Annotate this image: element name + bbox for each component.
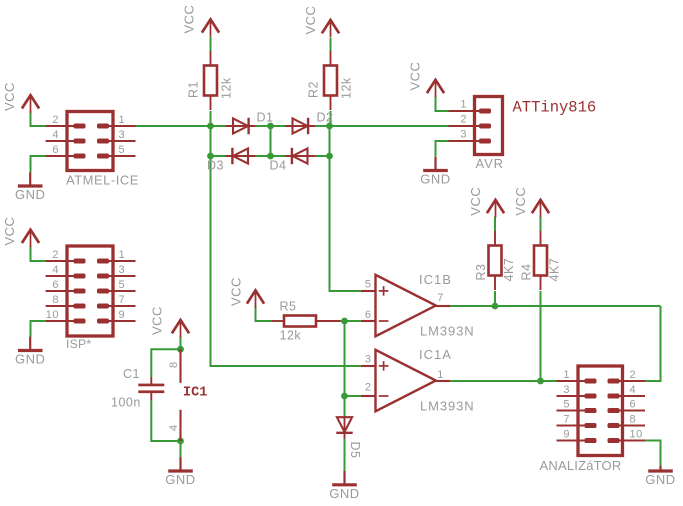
svg-text:8: 8 [630, 414, 637, 426]
op-amp IC1B minus input mark [379, 320, 389, 322]
connector ISP body [67, 246, 113, 336]
connector ANALIZATOR body [578, 366, 623, 456]
junction R1/D1 node [207, 123, 214, 130]
svg-text:GND: GND [645, 472, 675, 487]
svg-text:5: 5 [119, 144, 126, 156]
svg-text:1: 1 [460, 99, 467, 111]
svg-text:VCC: VCC [407, 62, 422, 91]
svg-text:GND: GND [420, 172, 450, 187]
svg-text:6: 6 [52, 279, 59, 291]
svg-text:8: 8 [52, 294, 59, 306]
wire node to IC1A pin2 [345, 395, 361, 397]
resistor R4 body [534, 231, 547, 290]
svg-text:D5: D5 [348, 442, 362, 459]
wire VCC to R2 top [330, 38, 332, 51]
svg-text:12k: 12k [339, 77, 353, 99]
svg-text:VCC: VCC [513, 187, 528, 216]
ATMEL-ICE pin 6 [46, 144, 85, 156]
op-amp IC1A triangle [376, 350, 436, 412]
svg-text:IC1A: IC1A [419, 347, 452, 362]
ANALIZATOR pin 8 [609, 414, 645, 426]
svg-text:ATMEL-ICE: ATMEL-ICE [66, 173, 139, 188]
ISP pin 4 [46, 264, 85, 276]
svg-text:D1: D1 [257, 111, 274, 125]
diode D4 [285, 148, 315, 164]
wire R1 bottom to node [210, 111, 212, 126]
svg-text:LM393N: LM393N [420, 324, 475, 339]
ISP pin 7 [99, 294, 136, 306]
wire ATMEL-ICE pin6 to GND [31, 156, 46, 172]
svg-text:7: 7 [437, 292, 444, 304]
svg-text:D2: D2 [317, 111, 334, 125]
wire node down to D5 [344, 396, 346, 417]
wire IC1 pin4 node to GND [180, 441, 182, 458]
svg-text:7: 7 [563, 414, 570, 426]
wire right vertical R2 node [329, 126, 331, 156]
power VCC symbol (top-left) [2, 82, 39, 113]
diode D1 [226, 118, 256, 134]
wire D1 cathode to D2 anode [254, 125, 286, 127]
svg-text:4K7: 4K7 [548, 258, 562, 282]
svg-text:12k: 12k [280, 329, 302, 343]
junction R5/IC1B pin6 node [341, 318, 348, 325]
svg-text:1: 1 [119, 249, 126, 261]
svg-text:10: 10 [46, 309, 59, 321]
junction D4 right node [326, 153, 333, 160]
ISP pin 3 [99, 264, 136, 276]
wire VCC to R3 top [494, 217, 496, 232]
svg-text:VCC: VCC [150, 306, 165, 335]
capacitor C1 [138, 377, 164, 400]
svg-text:ISP*: ISP* [66, 337, 91, 351]
IC1 power pin 8 [168, 349, 181, 383]
svg-text:VCC: VCC [181, 5, 196, 34]
svg-text:2: 2 [365, 381, 372, 393]
svg-text:3: 3 [119, 264, 126, 276]
svg-text:D4: D4 [270, 159, 287, 173]
wire D3 to D4 [254, 155, 286, 157]
junction D3/D4 node [267, 153, 274, 160]
svg-text:9: 9 [563, 429, 570, 441]
svg-text:5: 5 [119, 279, 126, 291]
svg-text:R3: R3 [474, 264, 488, 281]
junction D1/D2 node [267, 123, 274, 130]
svg-text:2: 2 [52, 114, 59, 126]
connector ATMEL-ICE body [67, 112, 113, 171]
svg-text:3: 3 [460, 129, 467, 141]
ANALIZATOR pin 10 [609, 429, 645, 441]
wire IC1B pin7 output [450, 305, 660, 307]
svg-text:LM393N: LM393N [420, 399, 475, 414]
svg-text:1: 1 [563, 369, 570, 381]
svg-text:R1: R1 [186, 81, 200, 98]
ground GND symbol (D5) [329, 471, 359, 501]
svg-text:3: 3 [563, 384, 570, 396]
svg-text:VCC: VCC [2, 217, 17, 246]
svg-text:2: 2 [460, 114, 467, 126]
svg-text:7: 7 [119, 294, 126, 306]
power VCC symbol (R3) [468, 187, 504, 218]
svg-text:4: 4 [630, 384, 637, 396]
ATMEL-ICE pin 3 [99, 129, 136, 141]
ANALIZATOR pin 9 [557, 429, 596, 441]
ISP pin 1 [99, 249, 136, 261]
wire VCC to R1 top [210, 37, 212, 51]
junction D3 left node [207, 153, 214, 160]
op-amp IC1B plus input mark [379, 286, 389, 296]
svg-text:R2: R2 [306, 81, 320, 98]
svg-text:GND: GND [329, 486, 359, 501]
ANALIZATOR pin 6 [609, 399, 645, 411]
svg-text:1: 1 [437, 369, 444, 381]
svg-text:4: 4 [168, 424, 180, 431]
diode D5 (vertical) [336, 417, 352, 439]
svg-text:6: 6 [630, 399, 637, 411]
junction R2/D2 node [326, 123, 333, 130]
svg-text:ANALIZáTOR: ANALIZáTOR [540, 458, 622, 473]
svg-text:VCC: VCC [228, 277, 243, 306]
ATMEL-ICE pin 2 [46, 114, 85, 126]
svg-text:GND: GND [15, 352, 45, 367]
wire AVR pin3 to GND [436, 141, 449, 157]
svg-text:6: 6 [365, 309, 372, 321]
svg-text:VCC: VCC [303, 6, 318, 35]
power VCC symbol (R4) [513, 187, 549, 218]
IC1 power pin 4 [168, 410, 181, 441]
junction IC1A pin2/D5 node [341, 393, 348, 400]
ground GND symbol (ISP) [15, 337, 45, 367]
IC1B pin 6 stub [361, 309, 376, 321]
wire R2 bottom to node [330, 111, 332, 126]
IC1B pin 7 stub [436, 292, 451, 306]
ANALIZATOR pin 1 [557, 369, 596, 381]
power VCC symbol (R2) [303, 6, 339, 38]
wire D3 row left segment [211, 155, 226, 157]
IC1A pin 3 stub [361, 353, 376, 366]
svg-text:100n: 100n [111, 396, 141, 410]
op-amp IC1A plus input mark [379, 361, 389, 371]
svg-text:6: 6 [52, 144, 59, 156]
svg-text:5: 5 [365, 278, 372, 290]
wire ISP pin10 to GND [31, 321, 46, 337]
ANALIZATOR pin 7 [557, 414, 596, 426]
ISP pin 2 [46, 249, 85, 261]
resistor R2 body [324, 51, 337, 110]
svg-text:10: 10 [630, 429, 643, 441]
IC1A pin 1 stub [436, 369, 451, 381]
junction VCC/IC1 pin8/C1 node [177, 346, 184, 353]
svg-text:ATTiny816: ATTiny816 [513, 98, 597, 116]
wire D4 to right node [314, 155, 330, 157]
power VCC symbol (R1) [181, 5, 219, 37]
ANALIZATOR pin 4 [609, 384, 645, 396]
ISP pin 10 [46, 309, 85, 321]
wire VCC to IC1 pin8 node [180, 336, 182, 349]
svg-text:R5: R5 [280, 299, 297, 313]
ANALIZATOR pin 2 [609, 369, 645, 381]
svg-text:GND: GND [15, 187, 45, 202]
svg-text:12k: 12k [219, 77, 233, 99]
svg-text:VCC: VCC [2, 82, 17, 111]
wire middle vertical D1/D4 node [270, 126, 272, 156]
wire R1 node down to D3 row [210, 126, 212, 156]
svg-text:1: 1 [119, 114, 126, 126]
power VCC symbol (IC1 power) [150, 306, 190, 337]
svg-text:C1: C1 [123, 367, 140, 381]
wire ANALIZaTOR pin10 to GND [645, 441, 661, 467]
svg-text:9: 9 [119, 309, 126, 321]
wire D5 to GND [344, 439, 346, 472]
svg-text:GND: GND [165, 472, 195, 487]
power VCC symbol (AVR) [407, 62, 444, 98]
op-amp IC1A minus input mark [379, 395, 389, 397]
wire R3 bottom to output net [494, 291, 496, 306]
svg-text:5: 5 [563, 399, 570, 411]
svg-text:AVR: AVR [476, 156, 504, 171]
ATMEL-ICE pin 1 [99, 114, 136, 126]
wire R5 right to IC1B pin6 [341, 320, 361, 322]
diode D2 [285, 118, 315, 134]
op-amp IC1B triangle [376, 275, 436, 337]
IC1A pin 2 stub [361, 381, 376, 396]
ground GND symbol (ANALIZATOR) [645, 466, 675, 487]
svg-text:3: 3 [119, 129, 126, 141]
junction R3 on output net [492, 303, 499, 310]
diode D3 [226, 148, 256, 164]
svg-text:3: 3 [365, 353, 372, 365]
AVR pin 3 [449, 129, 491, 141]
svg-text:D3: D3 [207, 159, 224, 173]
resistor R3 body [489, 231, 502, 290]
ground GND symbol (IC1) [165, 457, 195, 487]
wire output down to ANALIZaTOR pin2 [645, 306, 661, 381]
wire VCC to ATMEL-ICE pin2 [31, 111, 46, 126]
ISP pin 5 [99, 279, 136, 291]
wire R5 node down to IC1A pin2 [344, 321, 346, 396]
wire VCC to R5 left [256, 306, 272, 321]
ANALIZATOR pin 5 [557, 399, 596, 411]
ISP pin 8 [46, 294, 85, 306]
AVR pin 2 [449, 114, 491, 126]
svg-text:4: 4 [52, 264, 59, 276]
wire R4 bottom to IC1A output net [540, 291, 542, 381]
wire VCC to ISP pin2 [31, 246, 46, 261]
IC1B pin 5 stub [361, 278, 376, 291]
resistor R1 body [204, 51, 217, 110]
svg-text:8: 8 [168, 361, 180, 368]
wire node to C1 top [151, 349, 180, 377]
ANALIZATOR pin 3 [557, 384, 596, 396]
AVR pin 1 [449, 99, 491, 111]
power VCC symbol (R5) [228, 277, 264, 308]
junction GND/IC1 pin4/C1 node [177, 438, 184, 445]
svg-text:VCC: VCC [468, 187, 483, 216]
resistor R5 body [272, 316, 341, 327]
wire VCC to AVR pin1 [436, 96, 449, 111]
svg-text:2: 2 [52, 249, 59, 261]
wire VCC to R4 top [540, 217, 542, 232]
ISP pin 6 [46, 279, 85, 291]
svg-text:IC1: IC1 [183, 386, 207, 401]
wire net from ATMEL-ICE pin1 to D1 [136, 125, 226, 127]
junction R4 on IC1A output net [537, 378, 544, 385]
power VCC symbol (ISP) [2, 217, 39, 248]
ground GND symbol (ATMEL-ICE) [15, 172, 45, 202]
wire IC1A pin1 output to ANALIZaTOR pin1 [450, 380, 556, 382]
ATMEL-ICE pin 4 [46, 129, 85, 141]
ATMEL-ICE pin 5 [99, 144, 136, 156]
svg-text:IC1B: IC1B [419, 272, 452, 287]
wire C1 bottom to IC1 pin4 node [151, 400, 180, 441]
wire right node down to IC1B pin5 [330, 156, 361, 291]
svg-text:4K7: 4K7 [502, 258, 516, 282]
wire D2 cathode to AVR pin2 [314, 125, 449, 127]
ISP pin 9 [99, 309, 136, 321]
svg-text:4: 4 [52, 129, 59, 141]
svg-text:2: 2 [630, 369, 637, 381]
svg-text:R4: R4 [519, 264, 533, 281]
ground GND symbol (AVR) [420, 157, 450, 187]
connector AVR body [475, 97, 503, 155]
wire left node down to IC1A pin3 [211, 156, 361, 366]
